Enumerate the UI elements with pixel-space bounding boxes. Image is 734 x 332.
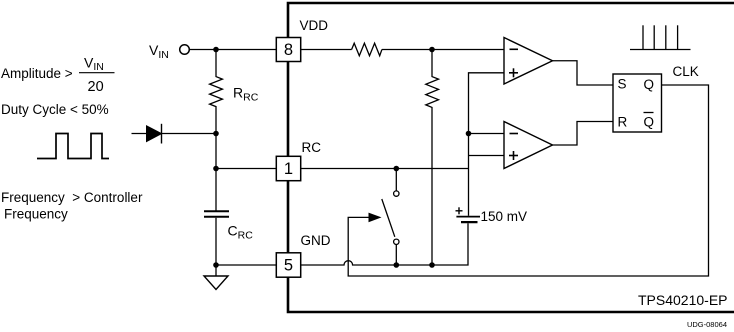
node junction divider midpoint: [429, 47, 435, 53]
svg-text:Frequency > Controller: Frequency > Controller: [1, 190, 143, 205]
svg-text:Q: Q: [644, 77, 655, 92]
node junction switch bottom on GND wire: [394, 262, 400, 268]
node junction diode/RRC/CRC: [213, 131, 219, 137]
svg-text:Frequency: Frequency: [4, 207, 68, 222]
svg-text:CLK: CLK: [673, 64, 699, 79]
switch control arrowhead: [369, 213, 382, 223]
waveform: input square wave: [37, 134, 109, 159]
node junction GND wire: [213, 262, 219, 268]
wire U1 output to latch S: [553, 61, 614, 85]
diode D1: [147, 124, 162, 144]
wire node down to capacitor: [215, 134, 217, 212]
capacitor CRC: [204, 211, 229, 265]
IC TPS40210-EP outline (top, left, bottom edges; right side cropped): [288, 3, 734, 312]
node annotation: Amplitude > VIN/20: [1, 54, 115, 95]
terminal VIN: [180, 45, 190, 55]
wire U1 plus input: [469, 73, 505, 134]
switch Q1 (RC discharge): [382, 169, 399, 266]
resistor R1 (horizontal, VDD divider top): [352, 43, 382, 56]
latch U3 (SR flip-flop): [613, 74, 662, 132]
wire pin 5 GND rail with hop over feedback: [301, 223, 468, 265]
wire RC pin to sense line: [301, 168, 469, 170]
wire U2 plus input: [469, 155, 505, 157]
battery V1 150 mV: [456, 207, 481, 222]
wire from diode to node: [132, 133, 217, 135]
svg-text:5: 5: [284, 257, 293, 275]
op-amp U2 (bottom comparator): [504, 122, 553, 169]
svg-text:UDG-08064: UDG-08064: [687, 320, 727, 329]
ground: [204, 265, 228, 290]
pin 5 box: [276, 253, 300, 277]
svg-text:GND: GND: [301, 233, 331, 248]
waveform: clock pulse train: [630, 25, 691, 49]
wire U2 minus input: [469, 133, 505, 135]
wire resistor to comparator minus input: [382, 49, 504, 51]
wire latch Q to switch control (feedback): [348, 85, 708, 276]
svg-text:8: 8: [284, 41, 293, 59]
wire VIN terminal to pin 8: [189, 49, 276, 51]
node junction RC sense: [466, 131, 472, 137]
svg-text:20: 20: [88, 79, 104, 95]
op-amp U1 (top comparator): [504, 38, 553, 85]
svg-text:Duty Cycle < 50%: Duty Cycle < 50%: [1, 102, 109, 117]
node junction R2 bottom / GND wire: [429, 262, 435, 268]
wire U2 output to latch R: [553, 122, 614, 146]
node junction VIN/RRC: [213, 47, 219, 53]
wire pin 8 to resistor: [301, 49, 352, 51]
node junction RC wire: [213, 166, 219, 172]
wire node to pin 5: [216, 264, 276, 266]
wire node to pin 1: [216, 168, 276, 170]
svg-text:TPS40210-EP: TPS40210-EP: [638, 292, 728, 308]
svg-text:Amplitude >: Amplitude >: [1, 66, 73, 81]
resistor RRC: [210, 50, 223, 134]
svg-text:R: R: [618, 115, 628, 130]
pin 1 box: [276, 156, 300, 180]
svg-text:RC: RC: [302, 140, 322, 155]
svg-text:Q: Q: [644, 115, 655, 130]
svg-text:VDD: VDD: [300, 18, 329, 33]
pin 8 box: [276, 38, 300, 62]
svg-text:1: 1: [284, 160, 293, 178]
resistor R2 (vertical, divider bottom): [426, 50, 439, 266]
svg-text:150 mV: 150 mV: [481, 209, 528, 224]
svg-text:S: S: [618, 77, 627, 92]
wire vertical RC/battery line: [468, 134, 470, 216]
node junction switch top on RC wire: [394, 166, 400, 172]
